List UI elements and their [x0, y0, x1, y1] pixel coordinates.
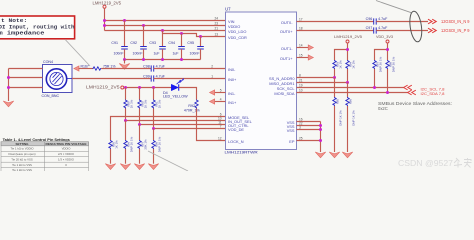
- wire C93 top stub: [162, 31, 164, 47]
- ground arrow R86: [342, 152, 352, 158]
- svg-text:LOCK_N: LOCK_N: [228, 139, 244, 144]
- svg-text:23: 23: [214, 22, 218, 26]
- svg-text:100nF: 100nF: [114, 52, 124, 56]
- pin VSS 3: [287, 126, 301, 134]
- wire C92 bottom stub: [143, 49, 145, 60]
- ground arrow R96: [120, 164, 130, 170]
- connector CON4 BNC body: [43, 65, 73, 93]
- note SMBus addresses: [378, 101, 452, 111]
- junction R89 top: [124, 86, 127, 89]
- svg-text:R85: R85: [336, 98, 340, 104]
- resistor R94: [346, 60, 356, 69]
- svg-text:C91: C91: [111, 41, 118, 45]
- pin EP 25: [289, 137, 302, 145]
- wire C93 bottom stub: [162, 49, 164, 60]
- junction 3V3 pullups: [386, 48, 389, 51]
- resistor R97: [138, 139, 148, 150]
- wire arrow to R167: [79, 68, 93, 70]
- callout leader top: [376, 1, 411, 13]
- capacitor C95: [187, 41, 203, 56]
- resistor R98: [152, 136, 162, 152]
- svg-text:12GSDI_IN_P 9: 12GSDI_IN_P 9: [441, 28, 470, 33]
- junction OUT_CTRL: [138, 123, 141, 126]
- svg-text:SETTING: SETTING: [15, 142, 29, 146]
- resistor R88: [386, 56, 396, 72]
- pin VDD_CDR 13: [214, 33, 247, 41]
- pin IN_OUT_SEL 10: [218, 117, 253, 125]
- wire EP: [297, 140, 321, 142]
- resistor R167: [81, 65, 116, 71]
- wire VSS 22: [297, 125, 321, 127]
- wire rail VDDIO: [105, 25, 226, 27]
- wire OUT_CTRL: [140, 124, 226, 126]
- svg-text:LMH1219_2V5: LMH1219_2V5: [86, 85, 120, 90]
- note box red border: [0, 16, 75, 39]
- wire R94 to ADDR1: [347, 69, 349, 83]
- wire C94 bottom stub: [181, 49, 183, 60]
- wire R97 to ground: [139, 149, 141, 164]
- wire R93 to ADDR0: [334, 69, 336, 78]
- no-connect arrow IN1-: [210, 90, 215, 95]
- junction ADDR0: [333, 76, 336, 79]
- capacitor C96: [366, 17, 388, 24]
- svg-text:12: 12: [218, 137, 222, 141]
- svg-text:LMH1219_2V5: LMH1219_2V5: [334, 34, 363, 39]
- capacitor C91: [111, 41, 127, 56]
- LED D4: [171, 78, 184, 90]
- svg-text:13: 13: [214, 33, 218, 37]
- resistor R92: [184, 100, 201, 113]
- resistor R87: [373, 56, 383, 72]
- wire R91 bottom: [153, 109, 155, 129]
- off-page chevron 12GSDI_IN_N: [428, 19, 436, 24]
- wire rail VIN: [105, 20, 226, 22]
- svg-text:C98: C98: [143, 64, 150, 68]
- svg-text:12GSDI_IN_N 9: 12GSDI_IN_N 9: [441, 19, 470, 24]
- wire IN_OUT_SEL: [126, 120, 226, 122]
- pin VDDIO 23: [214, 22, 240, 30]
- svg-text:1uF: 1uF: [153, 52, 159, 56]
- wire rail VDD_LDO: [105, 30, 226, 32]
- power symbol LMH1219_2V5: [103, 5, 106, 8]
- wire ground stub: [124, 60, 126, 64]
- svg-text:2/3 × VDDIO: 2/3 × VDDIO: [58, 152, 75, 156]
- svg-text:0: 0: [65, 163, 67, 167]
- power symbol 2V5 right: [346, 40, 349, 43]
- svg-text:VOD_DE: VOD_DE: [228, 127, 244, 132]
- wire C92 top stub: [143, 26, 145, 47]
- svg-text:Tie 1 kΩ to VSS: Tie 1 kΩ to VSS: [12, 168, 32, 171]
- svg-text:Tie 20 kΩ to VSS: Tie 20 kΩ to VSS: [11, 157, 33, 161]
- wire rail VDD_CDR: [163, 31, 226, 37]
- junction VSS 3: [319, 128, 322, 131]
- junction R90 top: [138, 86, 141, 89]
- junction VDDIO/feed: [103, 24, 106, 27]
- svg-text:VDDIO: VDDIO: [62, 147, 72, 151]
- wire C91 top stub: [124, 21, 126, 47]
- wire C99 to IN0+: [154, 78, 226, 80]
- wire IN1+ stub: [215, 101, 226, 103]
- wire C94 top stub: [181, 34, 183, 47]
- junction C95/VDD_CDR: [199, 35, 202, 38]
- wire SCK_SCL: [297, 87, 404, 89]
- svg-text:DNP 1K 1%: DNP 1K 1%: [352, 110, 356, 126]
- svg-text:Tie 1 kΩ to VSS: Tie 1 kΩ to VSS: [12, 163, 32, 167]
- junction C92/VDDIO: [142, 24, 145, 27]
- wire LED to R92: [179, 88, 197, 100]
- svg-text:m impedance: m impedance: [0, 29, 45, 36]
- svg-text:1uF: 1uF: [172, 52, 178, 56]
- wire R97 top: [139, 125, 141, 141]
- wire C95 bottom stub: [200, 49, 202, 60]
- junction C91/VIN: [123, 19, 126, 22]
- wire C91 bottom stub: [124, 49, 126, 60]
- svg-text:VSS: VSS: [287, 128, 295, 133]
- svg-text:OUT0+: OUT0+: [280, 29, 293, 34]
- svg-text:75R 1%: 75R 1%: [103, 65, 115, 69]
- watermark CSDN: [398, 158, 472, 168]
- pin VIN 24: [214, 17, 234, 25]
- pin OUT0+ 18: [280, 27, 303, 35]
- wire VSS 16: [297, 121, 321, 123]
- junction BNC gnd2: [7, 86, 10, 89]
- svg-text:I2C_SDA 7,8: I2C_SDA 7,8: [421, 92, 445, 96]
- wire MISO_ADDR1: [297, 82, 348, 84]
- pin LOCK_N 12: [218, 137, 244, 145]
- ground BNC shield: [3, 101, 13, 107]
- svg-text:C97: C97: [366, 26, 373, 30]
- svg-text:100nF: 100nF: [133, 52, 143, 56]
- svg-text:1: 1: [211, 75, 213, 79]
- svg-text:C99: C99: [143, 74, 150, 78]
- pin VDD_LDO 21: [214, 27, 246, 35]
- pin VSS 22: [287, 122, 303, 130]
- junction R91 top: [152, 86, 155, 89]
- resistor R86 (I2C pulldown): [346, 97, 356, 126]
- pin IN1- 5: [220, 89, 236, 97]
- wire R98 top: [153, 129, 155, 141]
- pin OUT1- 14: [281, 44, 303, 52]
- ground arrow VSS: [315, 152, 325, 158]
- wire C95 top stub: [200, 37, 202, 47]
- capacitor C99: [143, 74, 165, 81]
- junction ADDR1: [346, 81, 349, 84]
- wire VSS bus vertical: [320, 122, 322, 153]
- svg-text:CON4: CON4: [43, 60, 53, 64]
- svg-text:IN0+: IN0+: [228, 77, 237, 82]
- off-page chevron I2C_SCL: [404, 85, 412, 90]
- wire R88 to SDA: [387, 69, 389, 93]
- power symbol VDD_3V3: [386, 40, 389, 43]
- svg-text:R92: R92: [188, 104, 195, 108]
- resistor R95: [109, 140, 119, 149]
- power symbol 2V5 mid: [121, 86, 124, 89]
- no-connect arrow IN1+: [210, 99, 215, 104]
- wire BNC pin bottom: [9, 87, 43, 89]
- pin VOD_DE 7: [220, 125, 245, 133]
- svg-text:R167: R167: [81, 65, 89, 69]
- svg-text:VDD_3V3: VDD_3V3: [376, 34, 394, 39]
- junction EP: [319, 139, 322, 142]
- svg-text:4.7uF: 4.7uF: [156, 74, 166, 78]
- wire VSS 3: [297, 129, 321, 131]
- wire OUT1+ stub: [297, 57, 309, 59]
- wire R167 to C98: [101, 68, 151, 70]
- off-page chevron I2C_SDA: [408, 90, 416, 95]
- svg-text:VDD_CDR: VDD_CDR: [228, 35, 247, 40]
- no-connect arrow OUT1-: [308, 45, 313, 50]
- table 4-level control pin settings: [1, 142, 89, 172]
- svg-text:Tie 1 kΩ to VDDIO: Tie 1 kΩ to VDDIO: [10, 147, 34, 151]
- svg-text:OUT0-: OUT0-: [281, 20, 293, 25]
- resistor R96: [124, 136, 134, 152]
- svg-text:Float (leave pin open): Float (leave pin open): [8, 152, 35, 156]
- wire C98 to IN0-: [154, 68, 226, 70]
- wire R89 bottom: [125, 109, 127, 121]
- svg-text:1K 1%: 1K 1%: [352, 60, 356, 69]
- wire BNC ground vertical: [8, 69, 10, 102]
- svg-text:C95: C95: [187, 41, 194, 45]
- capacitor C97: [366, 26, 388, 33]
- svg-text:21: 21: [214, 27, 218, 31]
- wire R90 top: [139, 88, 141, 100]
- junction 2V5 pullups: [346, 48, 349, 51]
- pin VSS 16: [287, 118, 303, 126]
- junction C92 gnd: [142, 58, 145, 61]
- svg-text:4.7uF: 4.7uF: [156, 64, 166, 68]
- wire C96 to chevron: [376, 21, 428, 23]
- svg-text:DNP 1K 1%: DNP 1K 1%: [130, 136, 134, 152]
- svg-text:1K 1%: 1K 1%: [158, 99, 162, 108]
- junction VSS 22: [319, 124, 322, 127]
- resistor R90: [138, 99, 148, 108]
- no-connect arrow OUT1+: [308, 55, 313, 60]
- junction C94/VDD_CDR: [180, 32, 183, 35]
- svg-text:VDD_LDO: VDD_LDO: [228, 29, 246, 34]
- wire R86 top: [347, 83, 349, 98]
- wire R96 to ground: [125, 149, 127, 164]
- wire IN1- stub: [215, 92, 226, 94]
- svg-text:7: 7: [220, 125, 222, 129]
- pin IN0+ 1: [211, 75, 237, 83]
- svg-text:470R_1%: 470R_1%: [184, 109, 201, 113]
- junction VOD_DE: [152, 127, 155, 130]
- callout leader bottom: [148, 151, 188, 171]
- svg-text:4.7uF: 4.7uF: [378, 17, 388, 21]
- svg-text:C93: C93: [149, 41, 156, 45]
- wire R89 top: [125, 88, 127, 100]
- wire R95 to ground: [110, 149, 112, 164]
- capacitor C94: [168, 41, 184, 56]
- svg-text:OUT1-: OUT1-: [281, 46, 293, 51]
- svg-text:20K 1%: 20K 1%: [144, 139, 148, 150]
- wire SS_N_ADDR0: [297, 77, 335, 79]
- wire R91 top: [153, 88, 155, 100]
- svg-text:24: 24: [214, 17, 218, 21]
- wire C97 to chevron: [376, 30, 428, 32]
- junction C93 gnd: [161, 58, 164, 61]
- svg-text:R86: R86: [349, 98, 353, 104]
- junction SDA pullup: [386, 91, 389, 94]
- wire 2V5 LED rail: [124, 87, 172, 89]
- svg-text:IN1+: IN1+: [228, 100, 237, 105]
- svg-text:I2C_SCL 7,8: I2C_SCL 7,8: [421, 88, 445, 92]
- svg-text:LMH1219_2V5: LMH1219_2V5: [93, 1, 122, 6]
- junction gnd stub: [123, 58, 126, 61]
- wire VOD_DE: [154, 128, 226, 130]
- svg-text:4.7uF: 4.7uF: [378, 26, 388, 30]
- svg-text:2: 2: [211, 65, 213, 69]
- ground cap bank: [119, 64, 129, 70]
- svg-text:OUT1+: OUT1+: [280, 56, 293, 61]
- wire caps ground rail: [125, 59, 201, 61]
- wire power feed vertical: [104, 8, 106, 30]
- svg-text:RESULTING PIN VOLTAGE: RESULTING PIN VOLTAGE: [46, 142, 87, 146]
- svg-text:SMBus Device Slave Addresses:: SMBus Device Slave Addresses:: [378, 101, 452, 106]
- resistor R89: [124, 99, 134, 108]
- pin MISO_ADDR1 21: [269, 79, 303, 87]
- IC U7 LMH1219 body: [226, 12, 297, 150]
- wire R86 to ground: [347, 106, 349, 152]
- pin OUT1+ 15: [280, 54, 303, 62]
- svg-text:100nF: 100nF: [190, 52, 200, 56]
- wire R92 to LOCK_N: [197, 109, 226, 141]
- svg-text:1K 1%: 1K 1%: [115, 140, 119, 149]
- svg-text:IN0-: IN0-: [228, 67, 236, 72]
- svg-text:CSDN @9527: CSDN @9527: [398, 158, 453, 168]
- wire BNC pin mid: [9, 77, 43, 79]
- off-page chevron 12GSDI_IN_P: [428, 28, 436, 33]
- wire OUT0+ to C97: [297, 30, 374, 32]
- svg-text:1K 1%: 1K 1%: [130, 99, 134, 108]
- junction IN_OUT_SEL: [124, 119, 127, 122]
- resistor R85 (I2C pulldown): [333, 97, 343, 126]
- wire 3V3 pullup feed: [375, 43, 388, 60]
- wire MODE_SEL: [111, 117, 226, 141]
- svg-text:C92: C92: [130, 41, 137, 45]
- wire OUT0- to C96: [297, 21, 374, 23]
- svg-text:IN1-: IN1-: [228, 91, 236, 96]
- wire MOSI_SDA: [297, 92, 408, 94]
- svg-text:LMH1219RTWR: LMH1219RTWR: [225, 150, 258, 155]
- junction BNC gnd1: [7, 76, 10, 79]
- wire R98 to ground: [153, 149, 155, 164]
- svg-text:EP: EP: [289, 139, 295, 144]
- ground arrow R95: [105, 164, 115, 170]
- svg-text:DNP 2K 1%: DNP 2K 1%: [379, 56, 383, 72]
- pin MODE_SEL 6: [220, 113, 250, 121]
- resistor R91: [152, 99, 162, 108]
- wire OUT1- stub: [297, 47, 309, 49]
- svg-text:DNP 1K 1%: DNP 1K 1%: [158, 136, 162, 152]
- junction SCL pullup: [373, 86, 376, 89]
- pin SCK_SCL 19: [277, 84, 303, 92]
- pin OUT_CTRL 11: [218, 121, 249, 129]
- svg-text:MOSI_SDA: MOSI_SDA: [274, 91, 295, 96]
- callout leader to R167: [65, 39, 90, 66]
- junction C93/VDD_LDO: [161, 29, 164, 32]
- junction VIN/feed: [103, 19, 106, 22]
- ground arrow R98: [148, 164, 158, 170]
- wire R85 top: [334, 78, 336, 98]
- pin IN0- 2: [211, 65, 236, 73]
- wire R96 top: [125, 121, 127, 141]
- capacitor C98: [143, 64, 165, 71]
- svg-text:1K 1%: 1K 1%: [339, 60, 343, 69]
- wire 2V5 pullup feed 2: [347, 50, 349, 61]
- wire R90 bottom: [139, 109, 141, 125]
- pin MOSI_SDA 10: [274, 89, 302, 97]
- svg-text:0x2C: 0x2C: [378, 106, 388, 111]
- svg-text:C96: C96: [366, 17, 373, 21]
- wire R87 to SCL: [374, 69, 376, 88]
- wire BNC to C99: [72, 78, 151, 80]
- junction C94 gnd: [180, 58, 183, 61]
- svg-text:C94: C94: [168, 41, 175, 45]
- ground arrow R97: [134, 164, 144, 170]
- ground arrow R85: [329, 152, 339, 158]
- svg-text:DNP 2K 1%: DNP 2K 1%: [392, 56, 396, 72]
- pin SS_N_ADDR0 8: [269, 74, 301, 82]
- pin IN1+ 4: [220, 98, 237, 106]
- wire BNC pin top: [9, 68, 43, 70]
- wire R85 to ground: [334, 106, 336, 152]
- capacitor C92: [130, 41, 146, 56]
- svg-text:1/3 × VDDIO: 1/3 × VDDIO: [58, 157, 75, 161]
- svg-text:1K 1%: 1K 1%: [144, 99, 148, 108]
- svg-text:LED_YELLOW: LED_YELLOW: [163, 95, 188, 99]
- callout ellipse: [408, 10, 423, 42]
- capacitor C93: [149, 41, 165, 56]
- resistor R93: [333, 60, 343, 69]
- svg-text:DNP 1K 1%: DNP 1K 1%: [339, 110, 343, 126]
- svg-text:CON_BNC: CON_BNC: [42, 94, 60, 98]
- wire 2V5 pullup feed: [335, 43, 348, 60]
- svg-text:U7: U7: [225, 7, 231, 12]
- wire 3V3 pullup feed 2: [387, 50, 389, 61]
- pin OUT0- 17: [281, 18, 303, 26]
- off-page arrow (SDI in): [74, 66, 79, 71]
